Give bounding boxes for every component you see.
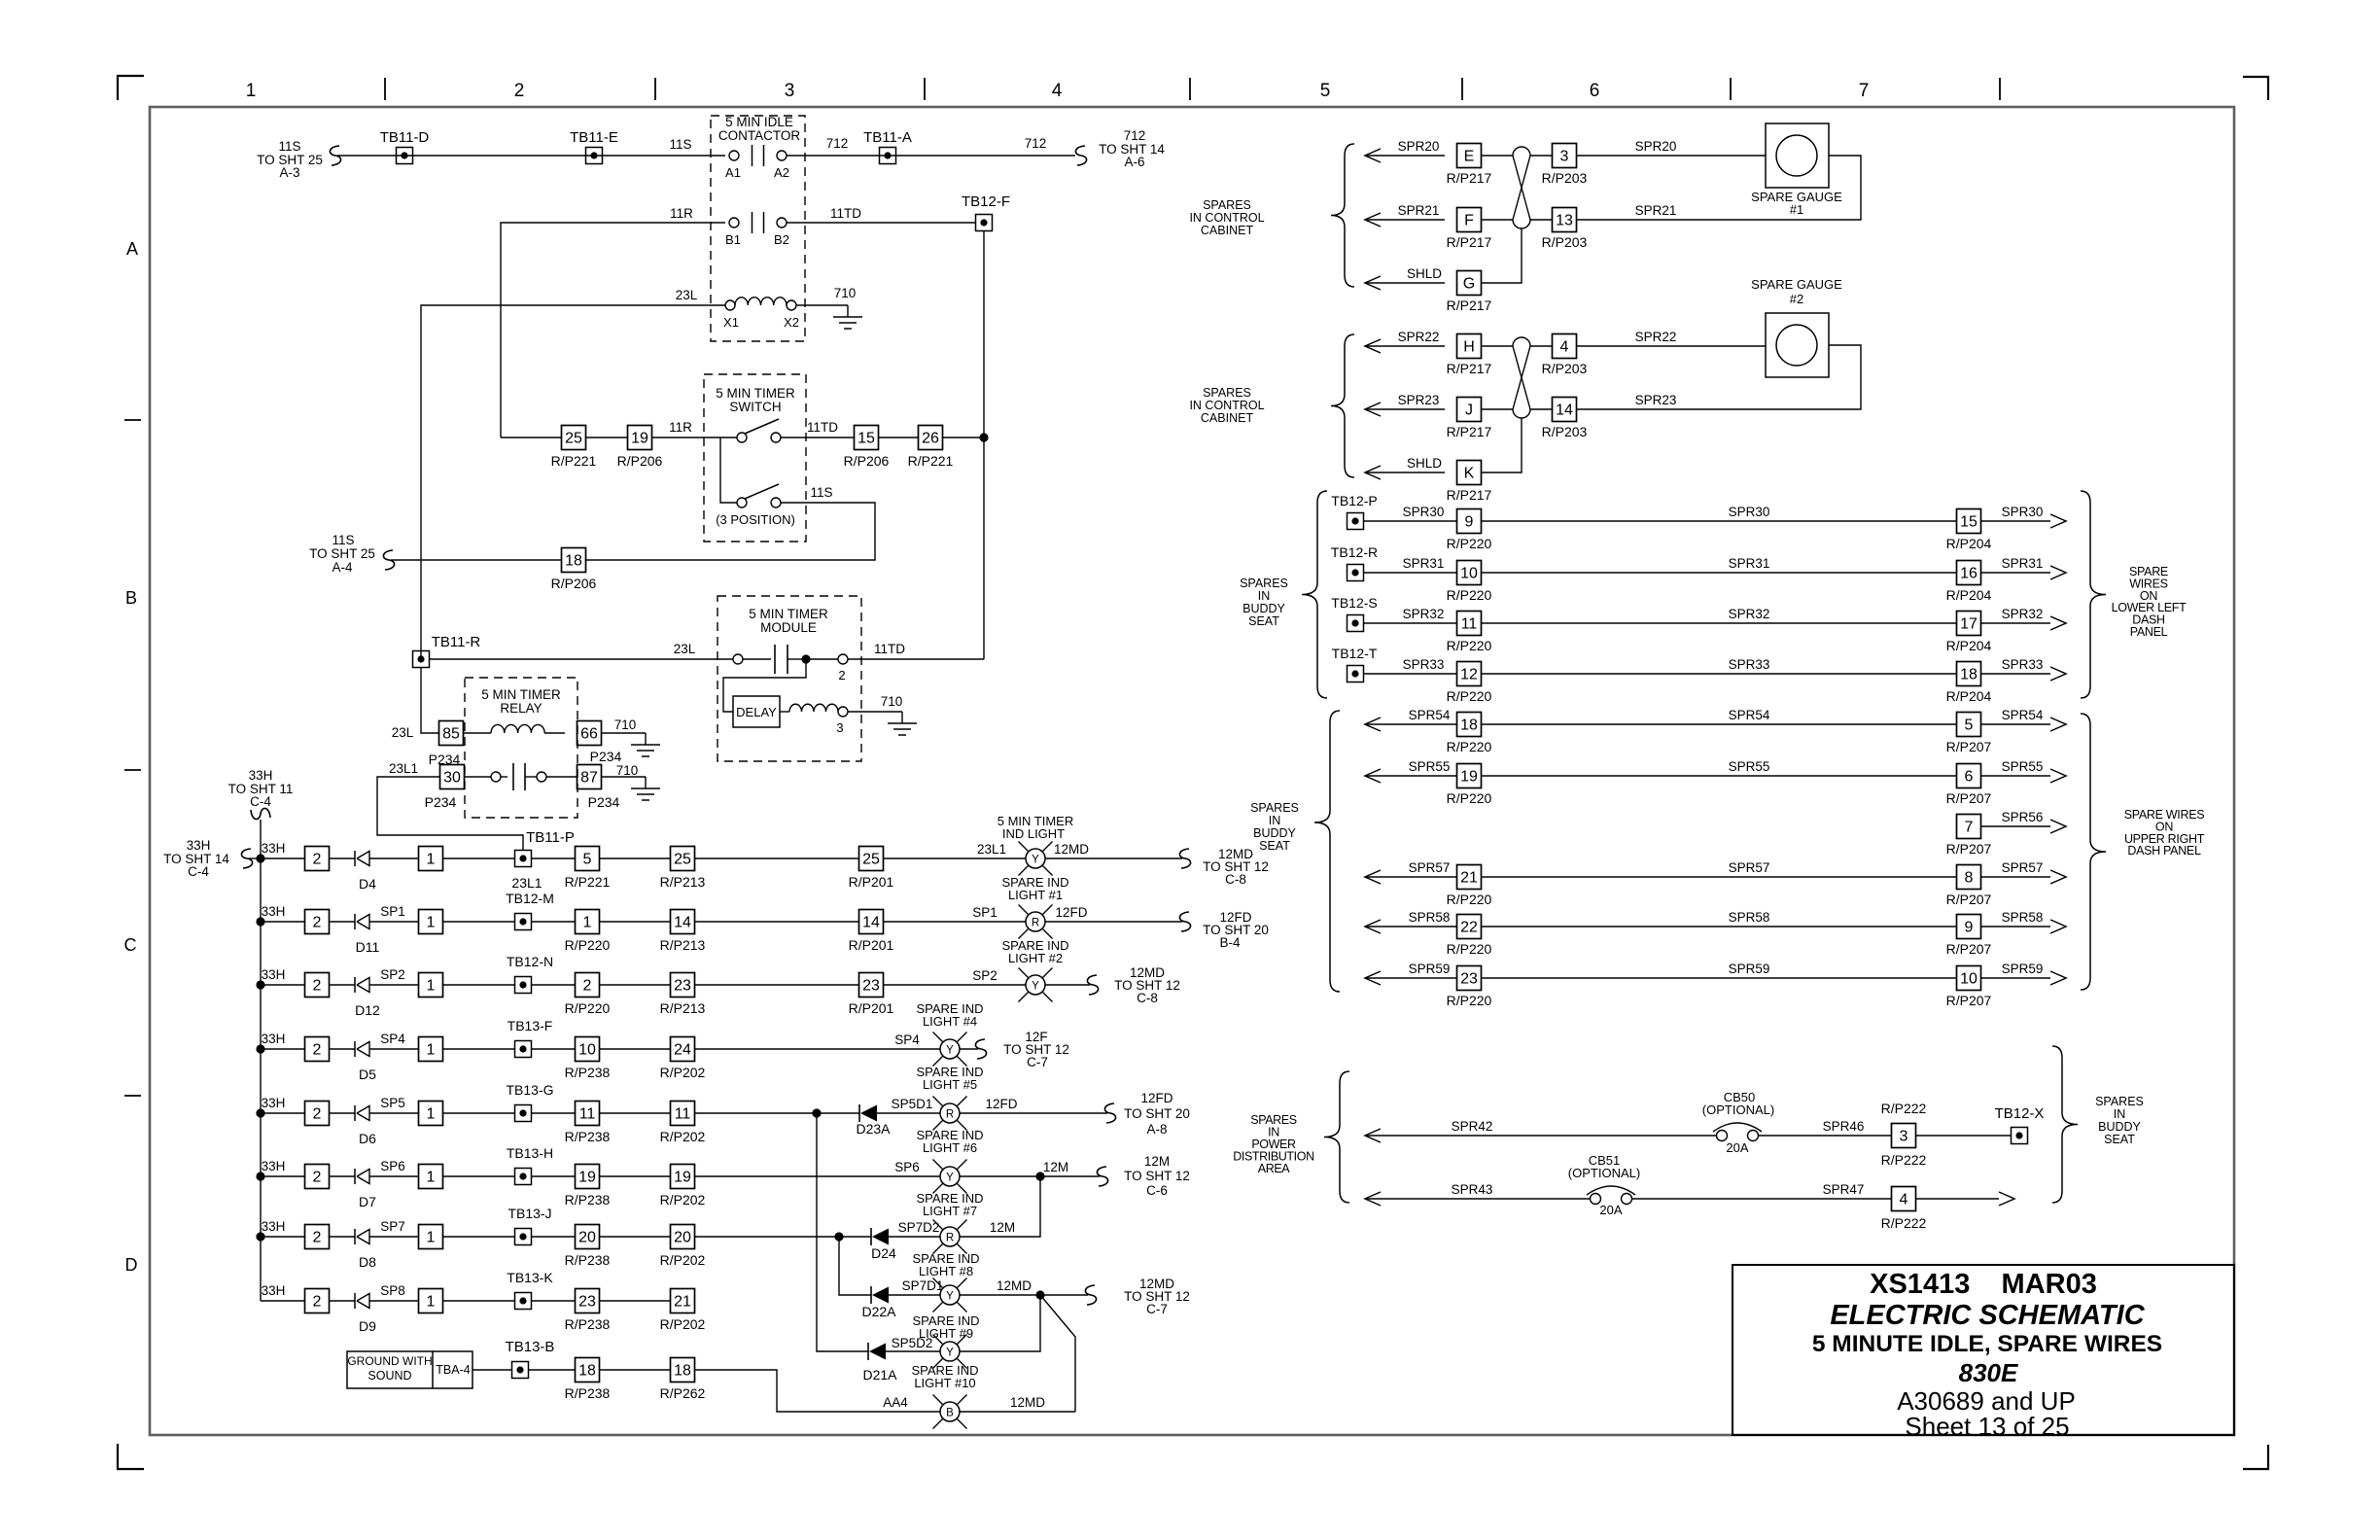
- connector 20 R/P238 row 7: [576, 1225, 600, 1249]
- svg-text:R/P207: R/P207: [1946, 739, 1992, 754]
- wire TB13-B to connector 18: [529, 1369, 575, 1371]
- svg-text:19: 19: [1460, 769, 1478, 786]
- svg-text:(OPTIONAL): (OPTIONAL): [1568, 1166, 1640, 1180]
- wire 33H row 1: [261, 857, 305, 859]
- brace spares control cabinet 1: [1331, 144, 1354, 287]
- wire to connector 25: [695, 857, 859, 859]
- svg-text:X1: X1: [723, 315, 739, 330]
- indicator light SPARE #6 (Y): [933, 1160, 943, 1170]
- svg-text:R/P201: R/P201: [849, 937, 894, 953]
- wire SPR58 to arrow: [1981, 926, 2050, 927]
- junction 33H row 2: [256, 917, 264, 926]
- wire break 12MD row 8: [1085, 1285, 1096, 1305]
- svg-text:8: 8: [1965, 870, 1974, 887]
- svg-text:AA4: AA4: [883, 1395, 908, 1410]
- svg-text:(OPTIONAL): (OPTIONAL): [1702, 1102, 1774, 1117]
- svg-text:D: D: [125, 1255, 138, 1275]
- svg-text:DELAY: DELAY: [736, 705, 777, 719]
- svg-text:33H: 33H: [262, 1159, 286, 1173]
- wire shield drain 1: [1481, 228, 1522, 283]
- svg-text:5 MIN TIMER: 5 MIN TIMER: [716, 386, 795, 401]
- wire to connector 11: [531, 1112, 576, 1114]
- svg-text:R/P206: R/P206: [617, 453, 663, 469]
- 5 MIN IDLE CONTACTOR dashed box: [711, 116, 805, 341]
- svg-text:SWITCH: SWITCH: [729, 400, 781, 414]
- connector 18 R/P204 SPR33: [1957, 662, 1981, 686]
- svg-text:SPR32: SPR32: [1403, 607, 1445, 621]
- wire SPR59 left arrow: [1365, 971, 1381, 985]
- connector 24 R/P202 row 4: [671, 1037, 695, 1062]
- svg-text:23L1: 23L1: [511, 875, 542, 891]
- svg-text:TB11-D: TB11-D: [380, 129, 430, 146]
- wire 11S: [337, 155, 725, 157]
- wire from light 9 up to 12MD junction: [960, 1295, 1040, 1351]
- connector 6 R/P207 SPR55: [1957, 764, 1981, 788]
- svg-text:SP4: SP4: [380, 1032, 405, 1046]
- svg-text:R/P202: R/P202: [660, 1065, 706, 1080]
- svg-text:R/P207: R/P207: [1946, 841, 1992, 857]
- wire SPR21 arrow: [1365, 213, 1381, 227]
- connector 19 R/P202 row 6: [671, 1165, 695, 1189]
- wire 12MD from light 1: [1045, 857, 1182, 859]
- connector 5 R/P207 SPR54: [1957, 713, 1981, 737]
- junction 33H row 1: [256, 854, 264, 862]
- svg-text:SPR20: SPR20: [1635, 139, 1677, 154]
- svg-text:H: H: [1463, 339, 1475, 356]
- wire 11TD to TB12-F: [787, 222, 976, 224]
- svg-text:4: 4: [1560, 339, 1569, 356]
- svg-text:2: 2: [313, 915, 322, 931]
- svg-text:33H: 33H: [187, 838, 211, 853]
- connector 10 R/P207 SPR59: [1957, 966, 1981, 991]
- connector 2 row 6: [305, 1165, 330, 1189]
- connector 14 R/P201 row 2: [859, 910, 884, 934]
- svg-text:R/P222: R/P222: [1881, 1101, 1927, 1116]
- svg-text:12: 12: [1460, 667, 1478, 683]
- wire to connector 19: [531, 1175, 576, 1177]
- wire break 12MD row 1: [1179, 849, 1190, 868]
- svg-text:R/P220: R/P220: [1447, 688, 1492, 704]
- svg-text:D8: D8: [359, 1254, 376, 1270]
- svg-text:R/P220: R/P220: [1447, 587, 1492, 603]
- svg-text:11S: 11S: [669, 137, 691, 152]
- svg-text:D24: D24: [871, 1245, 896, 1261]
- svg-text:C: C: [124, 935, 137, 955]
- svg-text:C-4: C-4: [250, 794, 271, 809]
- svg-text:R/P220: R/P220: [1447, 536, 1492, 551]
- wire break 12M row 6: [1097, 1167, 1107, 1186]
- svg-text:TB11-R: TB11-R: [432, 634, 481, 650]
- svg-text:LIGHT #1: LIGHT #1: [1008, 888, 1063, 902]
- wire SP2 to connector 1: [369, 984, 419, 986]
- wire break 12MD row 3: [1087, 975, 1098, 995]
- diode D6: [354, 1105, 356, 1121]
- connector 15 R/P206: [855, 426, 879, 450]
- svg-text:21: 21: [674, 1294, 691, 1311]
- connector 2 row 7: [305, 1225, 330, 1249]
- wire gauge 1 return: [1577, 156, 1861, 220]
- svg-text:23L1: 23L1: [389, 761, 418, 776]
- connector 11 R/P238 row 5: [576, 1102, 600, 1126]
- svg-text:R/P203: R/P203: [1542, 361, 1588, 376]
- connector 1 row 6: [419, 1165, 443, 1189]
- wire 710 from X2: [796, 304, 848, 306]
- svg-text:19: 19: [674, 1170, 691, 1186]
- svg-text:A-3: A-3: [279, 165, 299, 180]
- connector 2 row 5: [305, 1102, 330, 1126]
- svg-text:R/P204: R/P204: [1946, 587, 1992, 603]
- diode D8: [354, 1229, 356, 1244]
- wire 11S to sheet 25: [391, 559, 562, 561]
- svg-text:SP5D1: SP5D1: [892, 1097, 933, 1111]
- wire twist to 3: [1530, 155, 1552, 157]
- wire SP4 to connector 1: [369, 1048, 419, 1050]
- connector 21 R/P202 row 8: [671, 1289, 695, 1313]
- connector 1 row 7: [419, 1225, 443, 1249]
- wire SPR33 long: [1481, 673, 1956, 675]
- relay contact terminal 87: [577, 765, 602, 789]
- connector 21 R/P220 SPR57: [1457, 865, 1482, 890]
- svg-text:D5: D5: [359, 1067, 376, 1082]
- svg-text:D6: D6: [359, 1131, 376, 1146]
- indicator light SPARE #5 (R): [933, 1097, 943, 1106]
- svg-text:SPARES: SPARES: [1203, 198, 1251, 212]
- wire SPR43 arrow: [1365, 1192, 1381, 1206]
- svg-text:IN: IN: [1258, 589, 1271, 603]
- svg-text:20A: 20A: [1726, 1140, 1748, 1155]
- diode D4: [354, 851, 356, 866]
- svg-text:12FD: 12FD: [1055, 905, 1087, 920]
- svg-text:ELECTRIC SCHEMATIC: ELECTRIC SCHEMATIC: [1830, 1300, 2145, 1331]
- wire gauge 2 return: [1577, 345, 1861, 409]
- svg-text:11: 11: [1461, 616, 1478, 633]
- svg-text:DASH PANEL: DASH PANEL: [2127, 844, 2201, 857]
- wire SP2 to light 3: [884, 984, 1027, 986]
- wire to connector 11: [600, 1112, 671, 1114]
- svg-text:TB13-F: TB13-F: [507, 1018, 553, 1033]
- svg-text:D23A: D23A: [856, 1121, 891, 1137]
- wire to connector 21: [600, 1300, 671, 1302]
- wire 23L1 to light 1: [884, 857, 1027, 859]
- connector 19 R/P238 row 6: [576, 1165, 600, 1189]
- svg-text:TO SHT 12: TO SHT 12: [1124, 1169, 1190, 1183]
- svg-text:16: 16: [1960, 566, 1977, 582]
- connector 16 R/P204 SPR31: [1957, 561, 1981, 585]
- svg-text:SPR33: SPR33: [1403, 657, 1445, 672]
- svg-text:R/P221: R/P221: [551, 453, 597, 469]
- svg-text:712: 712: [826, 136, 849, 151]
- svg-text:12FD: 12FD: [985, 1097, 1017, 1111]
- svg-text:R/P238: R/P238: [565, 1192, 611, 1207]
- svg-text:IN: IN: [1269, 814, 1281, 827]
- wire 12M from light 7 up to row6: [960, 1176, 1040, 1237]
- connector 22 R/P220 SPR58: [1457, 915, 1482, 939]
- column tick marks: [384, 78, 386, 100]
- svg-text:SPR57: SPR57: [1729, 860, 1770, 875]
- svg-text:1: 1: [427, 1106, 436, 1123]
- wire SPR32 left: [1364, 622, 1456, 624]
- wire 12MD from light 8: [960, 1294, 1088, 1296]
- connector J R/P217: [1457, 398, 1482, 422]
- drawing border: [150, 107, 2234, 1435]
- brace buddy seat 50s: [1314, 711, 1340, 992]
- svg-text:SPR21: SPR21: [1635, 203, 1677, 218]
- wire SPR56 to arrow: [1981, 825, 2050, 827]
- wire from light 4: [960, 1048, 978, 1050]
- svg-text:26: 26: [922, 431, 939, 447]
- svg-text:3: 3: [836, 720, 843, 735]
- svg-text:18: 18: [1960, 667, 1977, 683]
- svg-text:2: 2: [838, 668, 845, 682]
- indicator light SPARE #4 (Y): [933, 1032, 943, 1042]
- svg-text:R/P203: R/P203: [1542, 424, 1588, 439]
- svg-text:B-4: B-4: [1219, 935, 1241, 950]
- svg-text:14: 14: [1556, 402, 1573, 419]
- svg-text:TB13-J: TB13-J: [507, 1206, 551, 1221]
- svg-text:(3 POSITION): (3 POSITION): [716, 512, 795, 527]
- svg-text:3: 3: [1560, 149, 1569, 165]
- junction 33H row 7: [256, 1232, 264, 1241]
- wire to light 5: [877, 1112, 940, 1114]
- indicator light SPARE #7 (R): [933, 1220, 943, 1230]
- connector 25 R/P213 row 1: [671, 847, 695, 871]
- wire SPR55 to arrow: [1981, 775, 2050, 777]
- junction SP5 bus: [812, 1108, 821, 1117]
- svg-text:6: 6: [1965, 769, 1974, 786]
- wire 33H row 4: [261, 1048, 305, 1050]
- svg-text:SPR54: SPR54: [2002, 708, 2044, 722]
- svg-text:23L: 23L: [676, 288, 698, 302]
- svg-text:R/P213: R/P213: [660, 874, 706, 890]
- svg-text:5: 5: [583, 852, 592, 868]
- svg-text:TBA-4: TBA-4: [436, 1363, 470, 1377]
- svg-text:R: R: [946, 1109, 954, 1121]
- svg-text:R/P203: R/P203: [1542, 234, 1588, 250]
- svg-text:LIGHT #6: LIGHT #6: [923, 1140, 977, 1155]
- wire to connector 2: [531, 984, 576, 986]
- contactor contact B1-B2: [729, 218, 739, 227]
- svg-text:R/P220: R/P220: [1447, 739, 1492, 754]
- svg-text:2: 2: [313, 852, 322, 868]
- indicator light 5 MIN TIMER (Y): [1019, 842, 1029, 852]
- indicator light SPARE #10 (B): [933, 1395, 943, 1405]
- wire SPR22 arrow: [1365, 339, 1381, 353]
- wire SP5D2 branch from row5 junction: [817, 1113, 868, 1351]
- svg-text:P234: P234: [425, 794, 457, 810]
- svg-text:P234: P234: [588, 794, 620, 810]
- contactor coil X1-X2: [725, 300, 735, 310]
- connector 23 R/P201 row 3: [859, 973, 884, 997]
- connector 13 R/P203: [1553, 208, 1577, 232]
- wire 12FD from light 5: [960, 1112, 1107, 1114]
- svg-text:5 MINUTE IDLE, SPARE WIRES: 5 MINUTE IDLE, SPARE WIRES: [1812, 1331, 2162, 1357]
- svg-text:TB11-E: TB11-E: [570, 129, 618, 146]
- connector 26 R/P221: [919, 426, 943, 450]
- svg-text:R/P220: R/P220: [1447, 892, 1492, 907]
- wire to connector 23: [695, 984, 859, 986]
- wire SHLD arrow: [1365, 276, 1381, 290]
- svg-text:#1: #1: [1790, 202, 1803, 217]
- svg-text:XS1413 MAR03: XS1413 MAR03: [1870, 1269, 2097, 1300]
- sheet corner mark top-right: [2243, 77, 2268, 100]
- svg-text:33H: 33H: [262, 841, 286, 856]
- svg-text:D7: D7: [359, 1194, 376, 1209]
- connector 12 R/P220 SPR33: [1457, 662, 1482, 686]
- connector 11 R/P202 row 5: [671, 1102, 695, 1126]
- svg-text:A-8: A-8: [1146, 1122, 1167, 1137]
- svg-text:712: 712: [1124, 128, 1146, 143]
- wire SPR55 long: [1481, 775, 1956, 777]
- wire module branch to delay: [723, 659, 806, 712]
- diode D5: [354, 1041, 356, 1057]
- wire 11S from lower contact: [586, 503, 875, 560]
- svg-text:23L: 23L: [674, 642, 696, 656]
- connector 1 row 5: [419, 1102, 443, 1126]
- connector 2 row 2: [305, 910, 330, 934]
- sheet corner mark bottom-left: [118, 1444, 144, 1469]
- wire 11TD from module pin2: [848, 658, 984, 660]
- wire SPR59 to arrow: [1981, 977, 2050, 979]
- brace spare wires lower left: [2081, 491, 2106, 698]
- svg-text:11S: 11S: [278, 139, 300, 154]
- wire break 33H top: [251, 808, 270, 819]
- svg-text:712: 712: [1025, 136, 1047, 151]
- wire to TB12-X: [1916, 1135, 2011, 1137]
- connector 5 R/P221 row 1: [576, 847, 600, 871]
- svg-text:#2: #2: [1790, 292, 1803, 306]
- ground 710 module: [901, 712, 903, 723]
- svg-text:R/P206: R/P206: [844, 453, 890, 469]
- indicator light SPARE #2 (Y): [1019, 968, 1029, 978]
- svg-text:SPR30: SPR30: [1403, 505, 1445, 519]
- wire SPR30 to arrow: [1981, 520, 2050, 522]
- wire SP1 to connector 1: [369, 921, 419, 923]
- svg-text:23L: 23L: [392, 725, 414, 740]
- svg-text:23: 23: [1460, 971, 1478, 988]
- svg-text:GROUND WITH: GROUND WITH: [347, 1354, 432, 1368]
- svg-text:R: R: [1032, 918, 1039, 929]
- wire SPR54 left arrow: [1365, 717, 1381, 731]
- wire break 33H left: [241, 849, 252, 868]
- svg-text:A-4: A-4: [332, 560, 353, 575]
- wire 11TD out of switch: [781, 437, 854, 438]
- svg-text:SPR58: SPR58: [1729, 910, 1770, 925]
- wire 11R into timer switch: [501, 437, 562, 438]
- connector 19 R/P206: [628, 426, 652, 450]
- connector 20 R/P202 row 7: [671, 1225, 695, 1249]
- connector 23 R/P238 row 8: [576, 1289, 600, 1313]
- svg-text:SPR55: SPR55: [2002, 759, 2044, 774]
- svg-text:SP4: SP4: [894, 1032, 920, 1047]
- svg-text:R/P217: R/P217: [1447, 361, 1492, 376]
- connector 11 R/P220 SPR32: [1457, 612, 1482, 636]
- wire to light 9: [886, 1350, 940, 1352]
- connector 18 R/P220 SPR54: [1457, 713, 1482, 737]
- wire to connector 23: [531, 1300, 576, 1302]
- wire SPR33 to arrow: [1981, 673, 2050, 675]
- wire SPR30 long: [1481, 520, 1956, 522]
- connector 25 R/P221: [562, 426, 586, 450]
- svg-text:LIGHT #7: LIGHT #7: [923, 1204, 977, 1218]
- svg-text:19: 19: [631, 431, 648, 447]
- wire 19 to switch: [652, 437, 737, 438]
- wire TB12-F down to timer module: [983, 231, 985, 659]
- connector 2 row 3: [305, 973, 330, 997]
- timer module delay coil: [780, 711, 789, 713]
- svg-text:11TD: 11TD: [874, 642, 905, 656]
- svg-text:R/P217: R/P217: [1447, 487, 1492, 503]
- svg-text:12MD: 12MD: [1054, 842, 1089, 857]
- wire break 712 right: [1075, 146, 1086, 165]
- wire 710 relay contact: [602, 776, 646, 778]
- svg-text:SPR59: SPR59: [2002, 962, 2044, 976]
- svg-text:SP7D1: SP7D1: [902, 1278, 944, 1293]
- wire SPR32 long: [1481, 622, 1956, 624]
- wire to connector 25: [600, 857, 671, 859]
- svg-text:TB11-A: TB11-A: [863, 129, 912, 146]
- connector 1 row 8: [419, 1289, 443, 1313]
- svg-text:SP5: SP5: [380, 1096, 405, 1110]
- wire break 12FD row 5: [1104, 1103, 1115, 1123]
- svg-text:9: 9: [1465, 514, 1474, 531]
- svg-text:A: A: [126, 239, 138, 259]
- svg-text:SPR33: SPR33: [2002, 657, 2044, 672]
- svg-text:D22A: D22A: [861, 1304, 896, 1319]
- wire 710 relay coil: [602, 732, 646, 734]
- svg-text:SPR43: SPR43: [1452, 1182, 1493, 1197]
- svg-text:10: 10: [578, 1042, 596, 1059]
- svg-text:TB12-S: TB12-S: [1331, 595, 1377, 611]
- svg-text:SPR31: SPR31: [2002, 556, 2044, 571]
- brace spare wires upper right: [2081, 714, 2106, 990]
- connector 23 R/P220 SPR59: [1457, 966, 1482, 991]
- svg-text:C-7: C-7: [1146, 1302, 1168, 1316]
- wire to connector 14: [695, 921, 859, 923]
- svg-text:R/P213: R/P213: [660, 1000, 706, 1016]
- svg-text:24: 24: [674, 1042, 691, 1059]
- diode D12: [354, 977, 356, 993]
- svg-text:23L1: 23L1: [977, 842, 1006, 857]
- svg-text:TB12-F: TB12-F: [962, 193, 1010, 210]
- svg-text:19: 19: [578, 1170, 596, 1186]
- connector 7 R/P207 SPR56: [1957, 815, 1981, 839]
- svg-text:TB13-K: TB13-K: [507, 1270, 553, 1285]
- svg-text:R/P217: R/P217: [1447, 234, 1492, 250]
- svg-text:R/P220: R/P220: [565, 1000, 611, 1016]
- svg-text:SP8: SP8: [380, 1283, 405, 1298]
- svg-text:SP6: SP6: [894, 1160, 920, 1174]
- wire 11R: [501, 223, 725, 437]
- connector 8 R/P207 SPR57: [1957, 865, 1981, 890]
- wire break 12F row 4: [975, 1039, 986, 1059]
- svg-text:CABINET: CABINET: [1201, 411, 1254, 425]
- terminal TB11-P row 1: [515, 851, 532, 867]
- wire to connector 20: [600, 1236, 671, 1238]
- svg-text:IN CONTROL: IN CONTROL: [1189, 399, 1264, 412]
- svg-text:TB12-R: TB12-R: [1331, 544, 1378, 560]
- connector 2 row 4: [305, 1037, 330, 1062]
- svg-text:SPR22: SPR22: [1398, 330, 1440, 344]
- wire SP5 to junction: [695, 1112, 860, 1114]
- relay contact terminal 30: [440, 765, 465, 789]
- junction SP7 bus: [834, 1232, 843, 1241]
- wire SPR20 arrow: [1365, 149, 1381, 162]
- svg-text:R/P204: R/P204: [1946, 638, 1992, 653]
- wire SHLD arrow 2: [1365, 466, 1381, 479]
- svg-text:R/P206: R/P206: [551, 576, 597, 591]
- svg-text:12M: 12M: [1144, 1154, 1170, 1169]
- svg-text:R/P220: R/P220: [1447, 993, 1492, 1008]
